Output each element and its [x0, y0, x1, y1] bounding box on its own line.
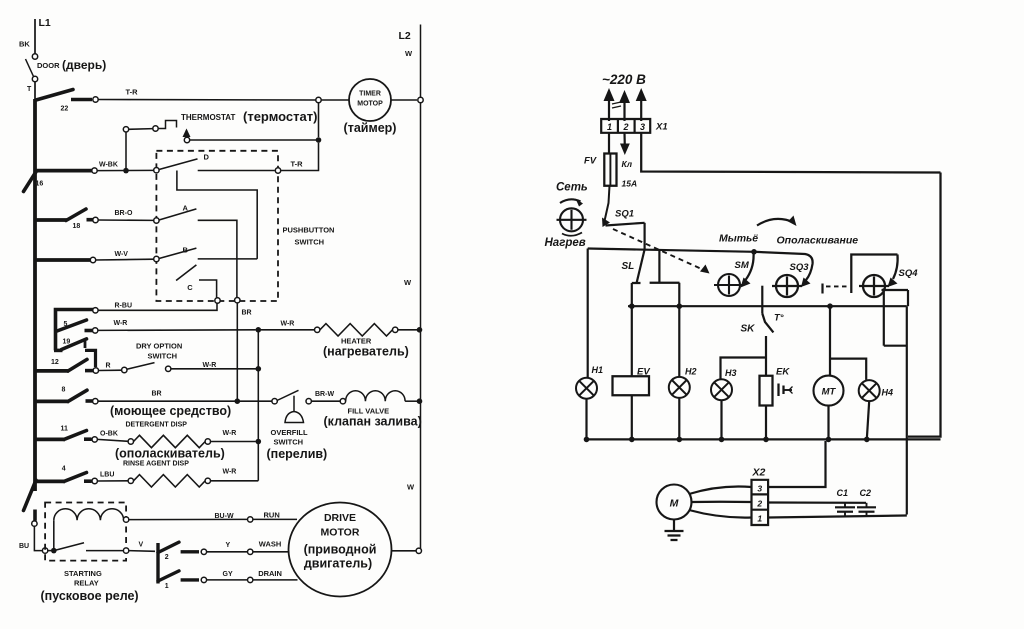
svg-text:Y: Y — [226, 542, 231, 549]
thermostat arrow — [183, 129, 191, 138]
dashed mechanical link SQ3-SQ4 — [821, 284, 823, 294]
wire H4 to bottom bus — [867, 401, 869, 439]
switch SL blade — [637, 250, 645, 282]
wire fuse to SQ1 contact — [605, 186, 610, 221]
motor M circle — [657, 485, 692, 520]
wire X2 pin3 up to bus — [768, 441, 825, 487]
program switch SQ3 follower lobe — [754, 252, 813, 280]
wire thick 5 to 19 pivot — [54, 331, 58, 350]
terminal RUN wire — [248, 517, 253, 522]
junction dot thermostat/T-R drop — [316, 137, 322, 143]
top bus wire of right diagram — [588, 249, 754, 252]
wire H4 jog — [830, 359, 866, 380]
junction dot dry line at heater drop — [255, 366, 261, 372]
motor switch 2 contact stub — [181, 550, 199, 553]
svg-text:(дверь): (дверь) — [62, 58, 106, 72]
junction dot relay common — [51, 548, 57, 554]
wire MT to bottom bus — [827, 406, 829, 440]
switch 19 contact tick — [84, 340, 87, 348]
starting relay contact blade — [54, 543, 84, 551]
wire RUN from relay coil — [129, 518, 248, 520]
svg-text:RINSE AGENT DISP: RINSE AGENT DISP — [123, 461, 189, 468]
svg-text:15А: 15А — [622, 179, 638, 189]
EK capacitor tap — [777, 384, 779, 397]
svg-text:SWITCH: SWITCH — [148, 352, 178, 361]
svg-text:16: 16 — [36, 181, 44, 188]
svg-text:R: R — [106, 363, 111, 370]
svg-text:BU-W: BU-W — [215, 513, 234, 520]
left rail of right diagram — [587, 249, 589, 378]
wire H3 to bottom bus — [720, 400, 722, 439]
motor M lead to X2 pin1 — [689, 510, 752, 518]
wire X1 pin1 to fuse — [608, 133, 610, 154]
dashed mechanical link SQ1 to SM — [613, 229, 706, 271]
bottom rail stub — [33, 510, 37, 521]
svg-text:W-R: W-R — [114, 320, 128, 327]
program switch SM cam circle — [718, 274, 740, 296]
svg-text:A: A — [183, 204, 189, 213]
svg-text:3: 3 — [757, 484, 762, 494]
junction dot heater line — [255, 327, 261, 333]
switch 22 contact stub — [71, 98, 92, 102]
starting relay coil left lead — [53, 520, 55, 548]
svg-text:Н4: Н4 — [882, 388, 894, 398]
overfill switch right terminal — [306, 399, 311, 404]
switch 8 stub from rail — [35, 399, 69, 403]
terminal WASH wire — [248, 549, 253, 554]
dry option switch left terminal — [122, 367, 127, 372]
junction dot W-BK branch — [123, 168, 129, 174]
lamp H2 — [669, 377, 690, 398]
svg-text:Нагрев: Нагрев — [545, 237, 586, 249]
svg-text:DRAIN: DRAIN — [258, 569, 282, 578]
wire X2 pin2 to capacitors — [768, 501, 866, 503]
svg-text:М: М — [670, 498, 679, 510]
starting relay contact wire — [86, 550, 123, 552]
pushbutton switch B pivot terminal — [154, 256, 159, 261]
supply arrow 2 — [623, 95, 625, 121]
capacitor C2 — [866, 503, 868, 507]
switch 18 contact stub — [87, 218, 94, 222]
junction dots on bottom bus — [584, 437, 590, 443]
big loop right wire — [908, 173, 941, 437]
switch 18 blade — [66, 209, 86, 221]
switch 11 terminal — [92, 437, 97, 442]
right drop wire — [906, 306, 908, 514]
connector X2 body — [752, 480, 769, 525]
svg-text:W-R: W-R — [281, 321, 295, 328]
SL left contact stub — [632, 282, 641, 284]
heater element (зигзаг) — [320, 324, 393, 336]
wire junction up to T-R node — [318, 103, 320, 138]
pushbutton switch assembly dashed box — [156, 151, 278, 301]
svg-text:(клапан залива): (клапан залива) — [324, 415, 422, 429]
svg-text:EV: EV — [637, 367, 650, 378]
rotary switch Сеть/Нагрев symbol — [560, 208, 583, 231]
starting relay coil — [54, 509, 124, 521]
svg-text:W: W — [405, 49, 413, 58]
wire V from relay to motor switch — [129, 550, 155, 553]
wire BR-W to fill valve — [311, 400, 340, 402]
wire T-R node to timer — [321, 99, 349, 101]
timer motor TM circle — [349, 79, 391, 121]
switch 12 terminal — [93, 368, 98, 373]
switch 11 contact stub — [84, 437, 92, 441]
wire door switch to rail node — [34, 82, 36, 99]
svg-text:(ополаскиватель): (ополаскиватель) — [115, 447, 225, 461]
mode arc arrow — [757, 219, 794, 226]
svg-text:(термостат): (термостат) — [243, 109, 317, 124]
svg-text:1: 1 — [607, 122, 612, 132]
right rail L2 (wire) — [420, 25, 422, 98]
svg-text:4: 4 — [62, 466, 66, 473]
svg-text:MOTOR: MOTOR — [321, 527, 360, 539]
overfill switch float bell — [285, 412, 304, 423]
svg-text:DETERGENT DISP: DETERGENT DISP — [126, 422, 188, 429]
pushbutton switch A pivot terminal — [154, 218, 159, 223]
svg-text:1: 1 — [757, 514, 762, 524]
svg-text:(моющее средство): (моющее средство) — [110, 404, 231, 418]
svg-text:DOOR: DOOR — [37, 61, 60, 70]
wire SQ4 jog to right drop — [884, 345, 907, 347]
SQ1 contact arrowhead — [602, 218, 610, 228]
svg-text:5: 5 — [64, 321, 68, 328]
switch 8 contact stub — [86, 399, 93, 403]
svg-text:T: T — [27, 86, 32, 93]
pushbutton switch D contact wire — [198, 170, 275, 172]
svg-text:W: W — [404, 278, 412, 287]
wire heater line to heater — [261, 329, 315, 331]
terminal W-BK — [92, 168, 97, 173]
svg-text:DRIVE: DRIVE — [324, 512, 356, 524]
terminal motor at right rail — [416, 548, 421, 553]
wire R-BU to pushbutton C terminal — [98, 303, 217, 310]
svg-text:L2: L2 — [399, 30, 411, 42]
program switch SQ4 cam circle — [863, 275, 885, 297]
switch 22 blade — [36, 90, 73, 101]
drive motor M1 circle — [289, 503, 392, 597]
wire W-V (thick) from rail — [35, 258, 91, 262]
SK contact and wire to EK/H3 — [765, 336, 767, 376]
wire W-BK branch thermostat feed — [125, 132, 127, 169]
switch 4 blade — [64, 473, 87, 482]
svg-text:WASH: WASH — [259, 540, 282, 549]
svg-text:Ополаскивание: Ополаскивание — [777, 235, 859, 247]
switch 5 contact stub — [85, 329, 93, 333]
junction dot heater at rail — [417, 327, 423, 333]
pushbutton switch B blade — [159, 248, 196, 258]
wire timer to L2 rail — [391, 99, 417, 101]
connector X1 body — [601, 119, 650, 133]
bottom rail switch blade — [24, 480, 37, 511]
program switch SQ3 cam circle — [776, 275, 798, 297]
svg-text:Кл: Кл — [622, 159, 633, 169]
switch 12 contact stub — [85, 369, 93, 373]
svg-text:W-R: W-R — [223, 469, 237, 476]
wire detergent output to drop bus — [211, 441, 256, 443]
svg-text:X2: X2 — [752, 467, 766, 479]
detergent dispenser resistor — [134, 435, 206, 447]
wire LBU to rinse resistor — [97, 480, 128, 482]
wire T-R to timer — [98, 99, 317, 102]
svg-text:BK: BK — [19, 40, 30, 49]
wire W-BK to pushbutton box — [97, 169, 154, 171]
svg-text:SQ1: SQ1 — [615, 209, 634, 220]
SL right contact bar — [650, 282, 680, 284]
switch 19 blade — [62, 339, 87, 350]
svg-text:3: 3 — [640, 122, 645, 132]
svg-text:1: 1 — [165, 583, 169, 590]
svg-text:(таймер): (таймер) — [344, 121, 397, 135]
pushbutton switch D output terminal on box edge — [275, 168, 280, 173]
svg-text:двигатель): двигатель) — [304, 557, 372, 571]
motor switch 1 blade — [158, 571, 179, 581]
switch SQ1 blade — [606, 223, 645, 226]
svg-text:2: 2 — [756, 499, 762, 509]
svg-text:11: 11 — [61, 426, 69, 433]
wire H3 jog — [721, 358, 767, 379]
svg-text:T-R: T-R — [126, 88, 139, 97]
switch 8 blade — [68, 390, 87, 401]
svg-text:LBU: LBU — [100, 472, 114, 479]
motor M lead to X2 pin2 — [692, 501, 752, 503]
junction dot MT feed on bus — [827, 303, 833, 309]
starting relay terminal on box edge — [42, 548, 47, 553]
wire H2 feed down — [678, 283, 680, 377]
wire pushbutton D output to T-R junction — [281, 143, 319, 171]
rinse agent dispenser resistor — [134, 475, 206, 487]
svg-text:SWITCH: SWITCH — [295, 238, 325, 247]
overfill switch left terminal — [272, 399, 277, 404]
dry option switch blade — [127, 363, 155, 370]
detergent dispenser resistor left terminal — [128, 439, 133, 444]
junction dots on middle bus — [629, 303, 635, 309]
wire W-BK (thick) from rail — [35, 169, 92, 173]
wire heater to rail — [398, 329, 420, 331]
pushbutton switch C contact wire — [199, 280, 217, 298]
rinse agent dispenser resistor right terminal — [205, 478, 210, 483]
pushbutton switch D blade — [159, 159, 198, 170]
thermostat step element — [158, 121, 176, 129]
svg-text:BR: BR — [242, 310, 252, 317]
heating element EK body — [760, 376, 773, 406]
rotary switch lower arc — [562, 233, 582, 236]
supply arrow 1 — [608, 93, 610, 121]
detergent dispenser resistor right terminal — [205, 439, 210, 444]
motor switch bracket — [156, 543, 159, 584]
svg-text:W-R: W-R — [223, 430, 237, 437]
terminal R-BU — [93, 308, 98, 313]
switch 11 stub from rail — [35, 437, 65, 441]
main left rail L1 (thick) — [33, 99, 37, 491]
svg-text:STARTING: STARTING — [64, 569, 102, 578]
wire BR vertical to detergent line — [236, 303, 238, 399]
heater right terminal — [393, 327, 398, 332]
svg-text:GY: GY — [223, 571, 233, 578]
starting relay dashed box — [45, 503, 126, 561]
capacitor C1 — [844, 503, 846, 507]
svg-text:18: 18 — [73, 223, 81, 230]
motor MT circle — [814, 376, 844, 406]
svg-text:SK: SK — [741, 324, 756, 335]
wire MT/H4 feed — [829, 306, 831, 376]
switch 16 blade on rail — [24, 171, 37, 192]
wire SM output down to SK — [761, 286, 763, 314]
wire R to dry option switch — [99, 369, 122, 371]
svg-text:B: B — [183, 246, 189, 255]
wire thick rail to switch 12 — [35, 369, 69, 373]
wire WASH into motor — [253, 551, 289, 553]
svg-text:X1: X1 — [655, 122, 668, 133]
pushbutton switch A contact wire — [198, 220, 237, 297]
svg-text:O-BK: O-BK — [100, 431, 118, 438]
phase tick marks — [612, 102, 621, 104]
svg-text:12: 12 — [51, 359, 59, 366]
pushbutton switch B contact wire — [198, 258, 258, 260]
switch 18 terminal — [93, 217, 98, 222]
fuse FV body — [604, 154, 616, 186]
svg-text:RUN: RUN — [264, 511, 280, 520]
switch 19 pivot stub — [54, 349, 63, 353]
svg-text:2: 2 — [165, 554, 169, 561]
junction dot SM feed — [751, 249, 757, 255]
wire WASH — [207, 551, 248, 553]
supply arrow 3 — [640, 93, 642, 121]
svg-text:H3: H3 — [725, 368, 737, 378]
svg-text:TIMER: TIMER — [359, 91, 381, 98]
svg-text:THERMOSTAT: THERMOSTAT — [181, 113, 235, 122]
overfill switch float stem — [293, 396, 295, 412]
switch 5 blade — [57, 320, 87, 331]
bottom rail terminal — [32, 521, 37, 526]
motor switch 2 terminal — [201, 549, 206, 554]
svg-text:T°: T° — [774, 313, 784, 324]
svg-text:EK: EK — [776, 367, 790, 378]
switch 4 terminal — [92, 478, 97, 483]
rotary switch handle arc — [560, 199, 581, 203]
wire X1 pin3 down and right (top loop feed) — [641, 133, 940, 173]
pushbutton switch C blade — [176, 265, 196, 281]
overfill switch blade — [277, 390, 299, 400]
lamp H3 — [711, 379, 732, 400]
svg-text:МТ: МТ — [822, 387, 837, 398]
dry option switch right terminal — [166, 366, 171, 371]
program switch SQ4 follower hook — [851, 255, 897, 294]
fill valve right terminal wire to rail — [405, 400, 419, 402]
pushbutton switch A blade — [159, 209, 196, 220]
svg-text:W-V: W-V — [115, 251, 129, 258]
switch 22 terminal — [93, 97, 98, 102]
wire O-BK to detergent resistor — [97, 439, 128, 441]
svg-text:(приводной: (приводной — [304, 543, 377, 557]
svg-text:~220 В: ~220 В — [602, 72, 646, 87]
svg-text:L1: L1 — [39, 17, 51, 29]
door switch blade — [26, 59, 34, 77]
switch 5 terminal — [93, 328, 98, 333]
svg-text:T-R: T-R — [291, 160, 304, 169]
svg-text:BR-W: BR-W — [315, 391, 334, 398]
terminal on L2 rail at timer — [418, 97, 423, 102]
switch 4 stub from rail — [35, 479, 65, 483]
svg-text:W-R: W-R — [203, 362, 217, 369]
svg-text:D: D — [204, 153, 210, 162]
motor switch 1 terminal — [201, 577, 206, 582]
svg-text:H1: H1 — [592, 365, 604, 375]
wire SQ4 output down — [883, 288, 885, 345]
wire BU down and to relay box — [34, 526, 42, 550]
rinse agent dispenser resistor left terminal — [128, 478, 133, 483]
starting relay output terminal — [123, 548, 128, 553]
svg-text:H2: H2 — [685, 367, 697, 377]
svg-text:RELAY: RELAY — [74, 579, 99, 588]
svg-text:Сеть: Сеть — [556, 182, 588, 194]
thermostat THERMOSTAT term contacts — [153, 126, 158, 131]
switch SQ4 contact stub — [882, 289, 909, 291]
svg-text:(нагреватель): (нагреватель) — [323, 345, 409, 359]
program switch SM follower lobe — [746, 252, 754, 280]
svg-text:(перелив): (перелив) — [267, 447, 328, 461]
motor switch 1 contact stub — [181, 578, 199, 581]
svg-text:BR: BR — [152, 391, 162, 398]
wire H2 to bottom bus — [678, 398, 680, 440]
svg-text:МОТОР: МОТОР — [357, 101, 383, 108]
wire SQ1 to top bus — [643, 223, 645, 250]
junction dot detergent output — [255, 439, 261, 445]
wire EV feed down from SL — [631, 283, 633, 376]
wire DRAIN into motor — [253, 579, 298, 581]
wire L1 drop — [34, 19, 36, 54]
svg-text:SQ4: SQ4 — [899, 268, 919, 279]
switch SK blade (T°) — [762, 314, 773, 333]
junction dot fill valve at rail — [417, 398, 423, 404]
lamp H1 — [576, 378, 597, 399]
svg-text:2: 2 — [622, 122, 628, 132]
svg-text:W: W — [407, 483, 415, 492]
wire EV to bottom bus — [631, 395, 633, 439]
starting relay coil right terminal — [123, 517, 128, 522]
svg-text:С1: С1 — [837, 488, 849, 498]
wire EK to bottom bus — [765, 406, 767, 440]
svg-text:8: 8 — [62, 387, 66, 394]
fill valve left terminal — [340, 399, 345, 404]
wire W-V to pushbutton B — [96, 258, 154, 261]
door switch (DOOR дверь) contact terminals — [32, 54, 37, 59]
pushbutton switch D pivot terminal — [154, 168, 159, 173]
wire R-BU corner (thick) — [56, 310, 96, 332]
svg-text:SWITCH: SWITCH — [274, 438, 304, 447]
wire H1 to bottom bus — [585, 399, 587, 440]
switch 8 terminal — [93, 399, 98, 404]
wire SM aux drop — [658, 251, 660, 283]
svg-text:W-BK: W-BK — [99, 162, 118, 169]
junction dot BR with pushbutton drop — [235, 398, 241, 404]
relay coil EV body — [613, 376, 650, 395]
svg-text:C: C — [187, 283, 193, 292]
svg-text:V: V — [139, 542, 144, 549]
wire RUN into motor — [253, 518, 297, 520]
bus of right diagram (middle) — [628, 305, 907, 307]
wire thermostat to junction — [190, 139, 316, 141]
svg-text:Мытьё: Мытьё — [719, 233, 758, 245]
wire BR-O to pushbutton A — [98, 219, 154, 221]
pushbutton terminal C on box bottom — [215, 298, 220, 303]
svg-text:PUSHBUTTON: PUSHBUTTON — [283, 226, 335, 235]
svg-text:(пусковое реле): (пусковое реле) — [41, 589, 139, 603]
wire vertical heater-drop bus — [257, 330, 259, 481]
wire DRAIN — [207, 579, 248, 581]
svg-text:С2: С2 — [860, 488, 872, 498]
svg-text:OVERFILL: OVERFILL — [271, 428, 309, 437]
